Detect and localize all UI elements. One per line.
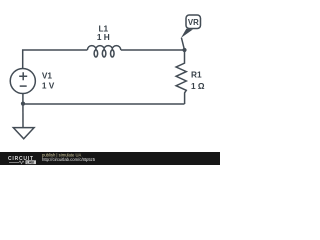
svg-text:V1: V1 — [42, 71, 53, 81]
svg-text:R1: R1 — [191, 70, 202, 80]
node dot at resistor top — [182, 48, 186, 52]
footer bar — [0, 152, 220, 165]
voltage source V1 — [10, 68, 35, 93]
probe pointer — [181, 29, 193, 38]
bottom wire — [23, 103, 185, 105]
wire from inductor to node — [121, 49, 185, 51]
svg-text:http://circuitlab.com/c/8tp5z5: http://circuitlab.com/c/8tp5z5 — [42, 157, 96, 162]
node dot at bottom left — [21, 102, 25, 106]
ground — [13, 128, 34, 139]
svg-text:1 Ω: 1 Ω — [191, 81, 205, 91]
footer logo LAB line — [9, 161, 24, 164]
resistor R1 — [176, 50, 186, 104]
svg-text:1 V: 1 V — [42, 81, 55, 91]
svg-text:VR: VR — [188, 18, 199, 27]
svg-text:LAB: LAB — [27, 161, 35, 165]
wire V1 bottom to ground — [22, 94, 24, 128]
probe VR box — [186, 15, 201, 29]
inductor L1 — [87, 46, 120, 57]
probe stem — [181, 38, 184, 50]
svg-text:1 H: 1 H — [97, 32, 110, 42]
V1 minus sign — [20, 85, 27, 87]
wire from V1 top to inductor — [23, 50, 88, 69]
footer logo LAB box — [26, 160, 37, 164]
V1 plus sign — [19, 72, 27, 80]
